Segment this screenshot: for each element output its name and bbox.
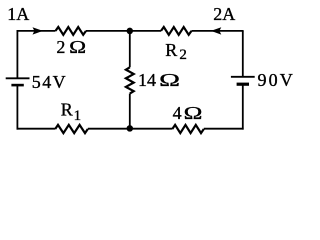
wire bottom-middle segment bbox=[88, 128, 173, 130]
wire left lower bbox=[16, 85, 18, 129]
resistor R1 bbox=[55, 125, 88, 133]
wire right lower bbox=[242, 84, 244, 129]
svg-text:1: 1 bbox=[74, 108, 82, 124]
battery 54V positive plate bbox=[6, 77, 30, 79]
battery 90V positive plate bbox=[231, 76, 255, 78]
svg-text:2: 2 bbox=[179, 47, 187, 63]
resistor 14ohm bbox=[126, 67, 134, 93]
svg-text:Ω: Ω bbox=[159, 70, 180, 90]
wire top-right segment bbox=[192, 30, 244, 32]
current arrow 2A bbox=[211, 27, 221, 34]
wire bottom-right segment bbox=[204, 128, 244, 130]
wire middle lower bbox=[129, 94, 131, 129]
svg-text:2A: 2A bbox=[213, 4, 235, 24]
current arrow 1A bbox=[33, 27, 43, 34]
wire right upper bbox=[242, 31, 244, 77]
svg-text:14: 14 bbox=[138, 70, 156, 90]
resistor 2ohm bbox=[56, 27, 87, 35]
svg-text:Ω: Ω bbox=[184, 103, 203, 123]
svg-text:Ω: Ω bbox=[69, 37, 86, 57]
svg-text:2: 2 bbox=[56, 37, 65, 57]
wire left upper bbox=[16, 31, 18, 78]
node bottom junction bbox=[127, 125, 134, 132]
node top junction bbox=[127, 28, 134, 35]
resistor 4ohm bbox=[172, 125, 204, 133]
svg-text:R: R bbox=[61, 100, 73, 120]
resistor R2 bbox=[161, 27, 192, 35]
svg-text:R: R bbox=[165, 40, 177, 60]
svg-text:90V: 90V bbox=[258, 70, 295, 90]
wire middle upper bbox=[129, 31, 131, 67]
svg-text:54V: 54V bbox=[32, 72, 67, 92]
battery 90V negative plate bbox=[237, 83, 249, 86]
svg-text:1A: 1A bbox=[7, 4, 29, 24]
wire bottom-left segment bbox=[17, 128, 56, 130]
wire top-left segment bbox=[17, 30, 56, 32]
wire top-middle segment bbox=[86, 30, 161, 32]
svg-text:4: 4 bbox=[173, 103, 182, 123]
battery 54V negative plate bbox=[11, 84, 23, 87]
